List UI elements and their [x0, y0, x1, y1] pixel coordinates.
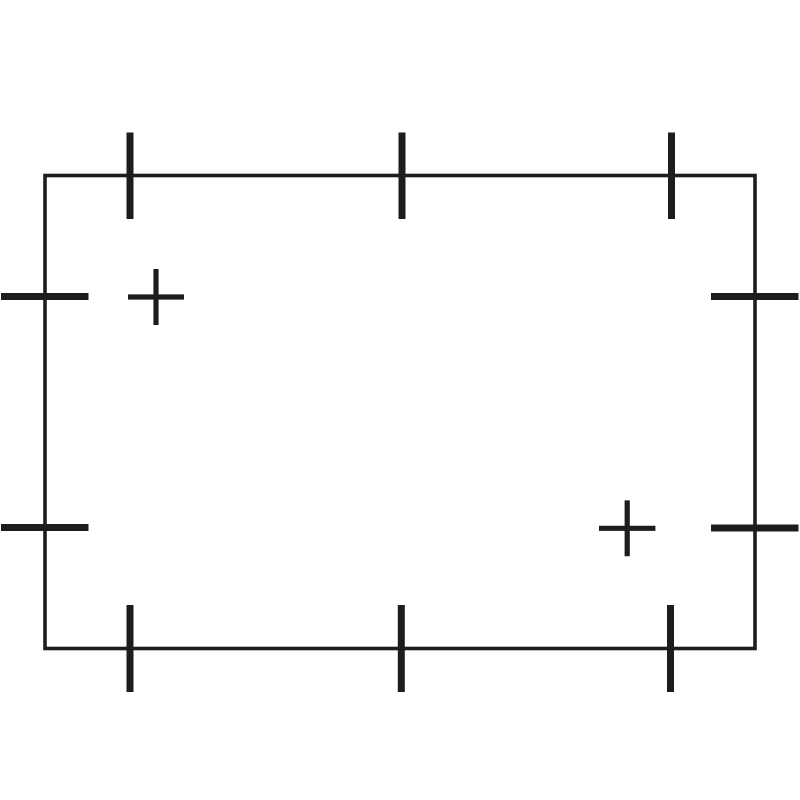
registration cross upper left — [128, 269, 184, 325]
crop mark left lower — [1, 524, 89, 531]
frame rectangle — [45, 176, 755, 649]
crop mark top left — [127, 133, 134, 220]
crop mark bottom middle — [398, 605, 405, 692]
crop mark right lower — [711, 525, 799, 532]
crop mark top right — [668, 133, 675, 220]
crop mark bottom left — [127, 605, 134, 692]
registration cross lower right — [599, 500, 655, 556]
crop mark right upper — [711, 293, 799, 300]
crop mark top middle — [399, 133, 406, 220]
crop mark left upper — [1, 293, 89, 300]
crop mark bottom right — [667, 605, 674, 692]
